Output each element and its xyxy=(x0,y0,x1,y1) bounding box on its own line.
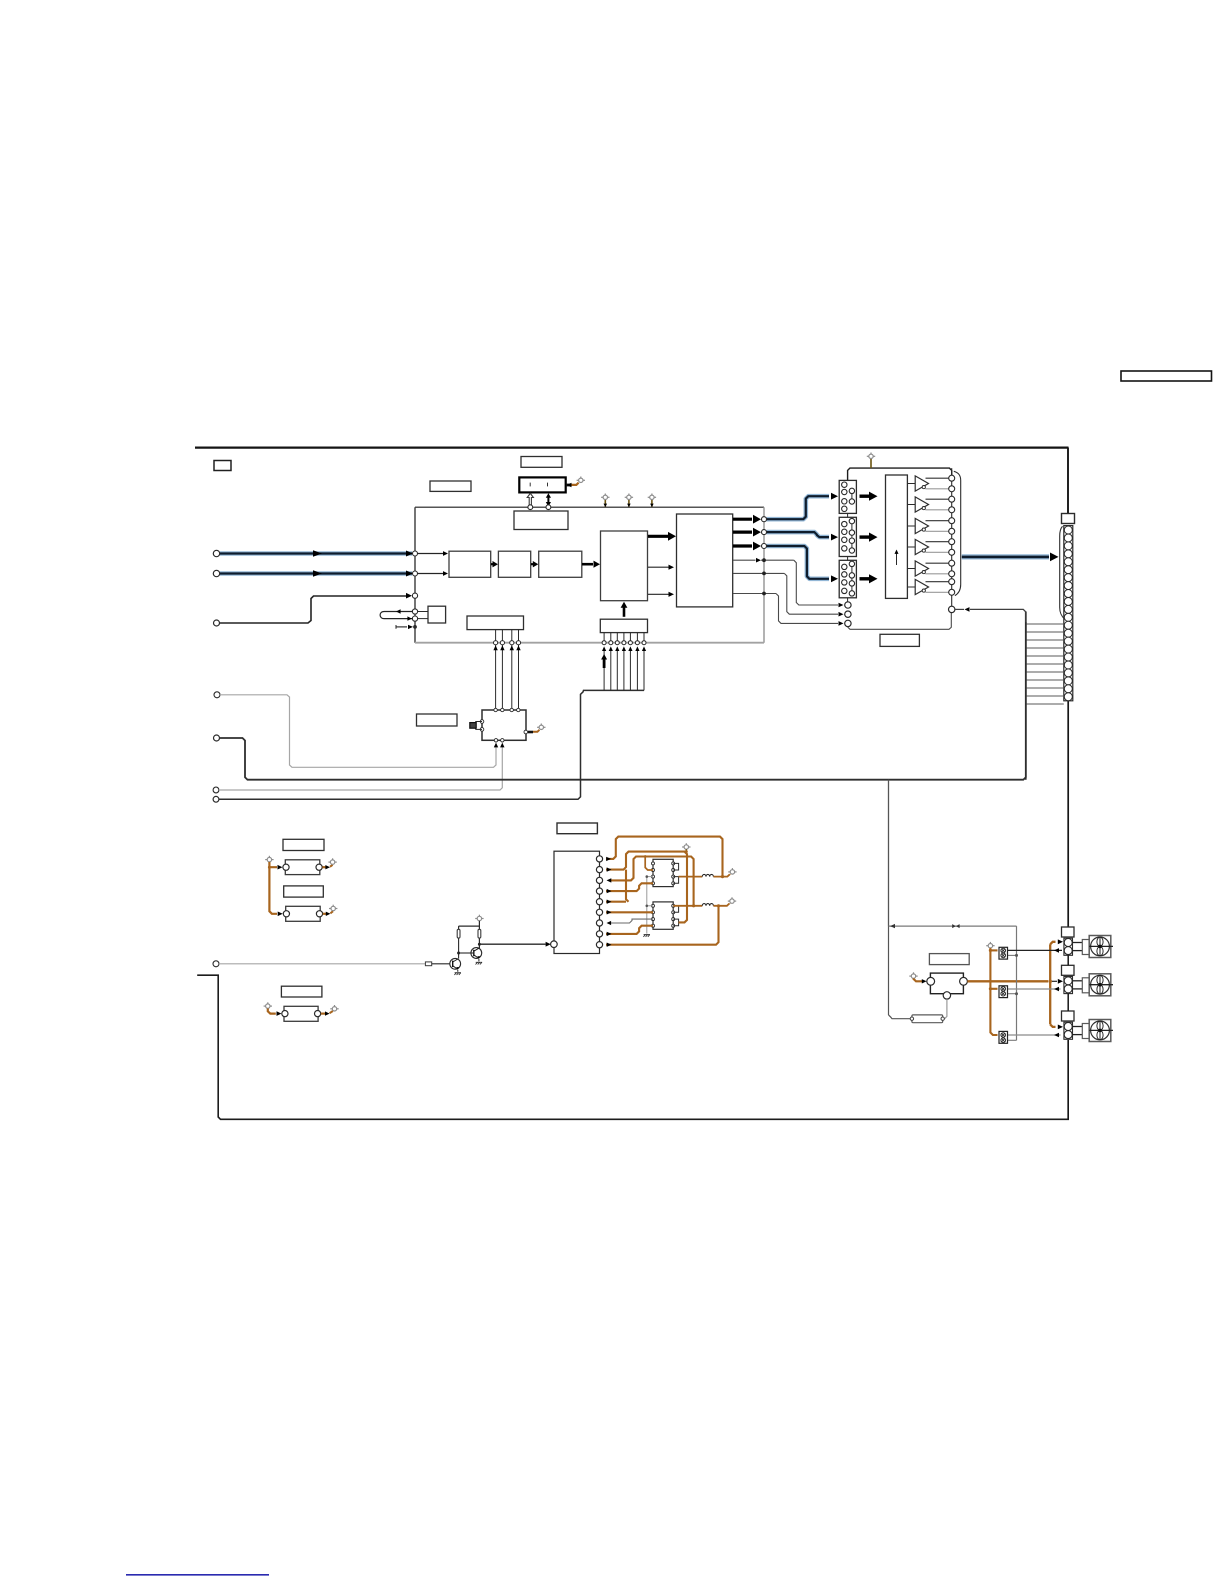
buffer T3 xyxy=(907,518,948,533)
orange switch rail xyxy=(989,948,998,1035)
power symbol VP13 xyxy=(986,942,994,948)
bus frame CN4 xyxy=(554,851,600,953)
node on edge A3 xyxy=(412,593,417,598)
bus pins CN4 xyxy=(596,856,602,948)
label box L3 xyxy=(514,511,568,530)
terminal J4 xyxy=(214,692,220,698)
connector P1 pins xyxy=(1064,526,1072,701)
wire U6 a xyxy=(418,611,429,613)
resistor R2 xyxy=(457,929,460,938)
bus branch 7 xyxy=(642,633,646,691)
ground G2 xyxy=(454,973,461,975)
blue wire CN2 xyxy=(767,532,839,540)
power symbol VP7 xyxy=(330,1005,338,1011)
resistor R4 xyxy=(910,1015,944,1023)
power symbol VP1 xyxy=(577,477,585,483)
filter FL3 xyxy=(282,1006,321,1021)
power tick VT3 xyxy=(648,494,656,508)
power tap VT4 xyxy=(867,453,875,469)
block link b xyxy=(847,557,849,561)
orange feed FL1 xyxy=(268,862,283,916)
terminal J7 xyxy=(213,796,219,802)
power symbol VP11 xyxy=(728,897,736,903)
branch to resistor xyxy=(889,926,911,1019)
header label box top right xyxy=(1121,371,1212,381)
junction branch down xyxy=(888,780,890,926)
orange feed FL3 xyxy=(268,1009,282,1016)
gray run O6 xyxy=(607,919,654,925)
bus branch 6 xyxy=(635,633,639,691)
connector P1 body xyxy=(1064,526,1073,701)
IC1 top pin 3 xyxy=(510,708,513,711)
IC1 left pins xyxy=(480,720,484,732)
orange out FL3 xyxy=(321,1011,333,1016)
blue bus wire 2 xyxy=(220,570,413,576)
IC1 top pin 1 xyxy=(494,708,497,711)
IC3 staple a xyxy=(673,906,678,913)
node tuner1 xyxy=(528,505,533,510)
fan wire F2 xyxy=(1008,987,1061,992)
node on edge A4 xyxy=(412,609,417,614)
page link underline bottom left xyxy=(126,1574,269,1576)
loopback hook xyxy=(380,609,412,621)
terminal J8 xyxy=(213,961,219,967)
wire U6 b xyxy=(418,618,429,620)
thick arrow CN2 out xyxy=(860,533,878,542)
blue bus wire 1 xyxy=(220,550,413,556)
bias rail xyxy=(459,921,480,949)
IC1 top pin 4 xyxy=(517,708,520,711)
wire J5 long xyxy=(220,612,1026,780)
wire J7 bus riser xyxy=(219,690,644,799)
ic IC2 xyxy=(653,859,673,886)
buffer T4 xyxy=(907,539,948,554)
fan wire F1 xyxy=(999,948,1062,953)
thick arrow CN3 out xyxy=(860,574,878,583)
orange out FL2 xyxy=(323,911,333,916)
clock dist box xyxy=(467,616,524,630)
fan chain link c xyxy=(1067,1040,1069,1119)
ground G3 xyxy=(643,935,650,937)
orange run O8 xyxy=(606,904,720,947)
relay RL1 xyxy=(927,973,968,999)
buffer T2 xyxy=(907,497,948,512)
thick arrow U4-U5 xyxy=(648,532,676,541)
orange run O2b xyxy=(606,870,629,904)
top rule xyxy=(195,446,1069,448)
column bracket xyxy=(954,471,961,595)
fan M1 with connector xyxy=(1062,927,1114,958)
pin block CN3 xyxy=(839,560,856,598)
node on edge A6 xyxy=(414,626,417,629)
clock pin wire 3 xyxy=(510,630,514,710)
ground G1 xyxy=(476,962,483,964)
clock pin wire 1 xyxy=(493,630,497,710)
bus branch 4 xyxy=(622,633,626,691)
inductor FB4 xyxy=(673,903,729,905)
block U4 xyxy=(601,531,648,601)
terminal J1 xyxy=(213,550,219,556)
IC1 top pin 2 xyxy=(501,708,504,711)
wire U5 w1 xyxy=(733,558,844,607)
power symbol VP2 xyxy=(537,724,545,730)
wire C13 out xyxy=(955,607,1026,622)
fan chain link a xyxy=(1067,955,1069,965)
IC3 pins xyxy=(652,904,675,927)
thick arrow U5 B1 xyxy=(733,515,761,524)
buffer T6 xyxy=(907,579,948,594)
orange out FL1 xyxy=(322,865,332,870)
block U1 xyxy=(449,551,491,577)
node B2 xyxy=(762,530,767,535)
bus branch 1 xyxy=(602,633,606,691)
clock feed box xyxy=(600,619,647,632)
buffer T5 xyxy=(907,561,948,576)
arrow up into U4 xyxy=(621,602,628,617)
node tuner2 xyxy=(546,505,551,510)
power symbol VP8 xyxy=(475,915,483,921)
blue output bus xyxy=(962,553,1059,562)
node CN4 in xyxy=(551,941,558,948)
series resistor R1 xyxy=(425,962,431,966)
blue wire CN1 xyxy=(767,493,839,519)
fan M2 with connector xyxy=(1062,965,1114,996)
connector bracket xyxy=(1060,526,1065,619)
node C13 xyxy=(949,606,955,612)
filter FL1 xyxy=(283,860,322,875)
fan chain link b xyxy=(1067,994,1069,1011)
inductor FB3 xyxy=(679,874,730,876)
node on edge A2 xyxy=(413,571,418,576)
arrow U1-U2 xyxy=(491,561,498,567)
fan ribbon bus xyxy=(1026,622,1064,780)
label box L4 xyxy=(417,714,458,726)
node B3 xyxy=(762,544,767,549)
wire R1 to Q1 xyxy=(432,963,450,965)
wire J4 to IC1 xyxy=(220,695,498,768)
label box L11 xyxy=(929,954,969,965)
switch block SW2 xyxy=(999,986,1008,998)
outer frame right edge mid xyxy=(1067,701,1069,927)
power symbol VP4 xyxy=(328,858,336,864)
transistor Q1 xyxy=(450,958,461,971)
label box L7 xyxy=(283,839,324,850)
wire tuner to power xyxy=(566,483,579,488)
sense rail xyxy=(1008,926,1018,1040)
crystal X1 xyxy=(470,722,482,730)
arrow U3-U4 xyxy=(582,561,600,568)
orange run O7 xyxy=(606,926,653,936)
wire R2 down xyxy=(457,938,460,959)
bus branch 5 xyxy=(628,633,632,691)
legend box top left xyxy=(214,461,231,471)
thick arrow CN1 out xyxy=(860,492,878,501)
orange run O4 xyxy=(606,883,653,893)
wire J8 to Q1 xyxy=(219,963,425,965)
stub arrow into A6 xyxy=(396,625,413,629)
collector node xyxy=(478,942,551,947)
terminal J6 xyxy=(213,787,219,793)
blue wire CN3 xyxy=(767,546,839,582)
fan wire F3 xyxy=(1008,1033,1061,1038)
node B1 xyxy=(762,517,767,522)
wire IC1 to power xyxy=(528,730,539,732)
block U2 xyxy=(498,551,530,577)
pin block CN2 xyxy=(839,517,856,556)
label box L9 xyxy=(281,986,322,997)
input arrow to U1 a xyxy=(418,551,449,556)
inner board outline xyxy=(415,507,764,643)
pin block CN1 xyxy=(839,480,856,513)
outer frame bottom edge xyxy=(197,975,1068,1119)
bus branch 3 xyxy=(615,633,619,691)
connector square top xyxy=(1062,514,1075,524)
wire J3 to node xyxy=(220,593,412,623)
wire C3 return xyxy=(848,613,951,630)
double arrow xyxy=(546,493,551,506)
input arrow to U1 b xyxy=(418,571,449,576)
output column line xyxy=(951,468,953,606)
IC1 bottom pins xyxy=(494,739,504,742)
orange run O2 xyxy=(606,850,688,922)
node C3 xyxy=(845,620,851,626)
power symbol VP12 xyxy=(909,972,917,978)
block U3 xyxy=(539,551,582,577)
thick arrow U5 B2 xyxy=(733,528,761,537)
power tick VT1 xyxy=(601,494,609,508)
power tick VT2 xyxy=(625,494,633,508)
power symbol VP9 xyxy=(682,843,690,851)
resistor R3 xyxy=(478,929,481,938)
power symbol VP3 xyxy=(265,856,273,862)
node C2 xyxy=(845,611,851,617)
terminal J2 xyxy=(213,570,219,576)
wire U5 w2 xyxy=(733,572,844,617)
hollow arrow up xyxy=(527,493,533,505)
IC2 staple a xyxy=(673,863,678,870)
tuner box with pins xyxy=(519,477,565,492)
switch block SW3 xyxy=(999,1031,1008,1043)
label box L1 xyxy=(430,481,471,491)
power symbol VP6 xyxy=(264,1002,272,1008)
wire U5 w3 xyxy=(733,592,844,626)
small box U6 xyxy=(428,606,446,623)
orange run O3b xyxy=(644,855,653,870)
label box L8 xyxy=(284,886,324,897)
arrow U4-U5 b xyxy=(648,565,674,570)
terminal J5 xyxy=(214,735,220,741)
label box L5 xyxy=(880,634,919,646)
sense line with valve xyxy=(889,924,1017,928)
bus branch 2 xyxy=(609,633,613,691)
driver box U7 xyxy=(886,475,908,598)
relay coil return xyxy=(945,999,947,1019)
outer frame right edge upper xyxy=(1067,448,1069,514)
wire top to column xyxy=(848,468,952,480)
power symbol VP10 xyxy=(728,868,736,874)
orange bus fans xyxy=(967,939,1063,1029)
clock pin wire 2 xyxy=(500,630,504,710)
terminal J3 xyxy=(214,620,220,626)
orange run O5 xyxy=(606,910,653,914)
IC1 right pin xyxy=(524,730,528,734)
arrow U4-U5 c xyxy=(648,592,674,597)
filter FL2 xyxy=(283,906,322,921)
orange run O1 xyxy=(606,837,724,879)
fan M3 with connector xyxy=(1062,1011,1114,1042)
clock pin wire 4 xyxy=(516,630,520,710)
node C1 xyxy=(845,602,851,608)
node on edge A1 xyxy=(413,551,418,556)
ic IC3 xyxy=(653,902,673,929)
label box L10 xyxy=(557,823,597,834)
orange feed RL1 xyxy=(914,978,927,983)
power symbol VP5 xyxy=(329,905,337,911)
thick arrow U5 B3 xyxy=(733,542,761,551)
block U5 xyxy=(677,514,733,607)
block link c xyxy=(847,598,849,602)
transistor Q2 xyxy=(459,948,482,962)
orange run O3 xyxy=(607,857,696,908)
switch block SW1 xyxy=(999,947,1008,959)
output column nodes xyxy=(949,475,955,595)
IC2 pins xyxy=(652,862,675,885)
label box L2 xyxy=(521,457,562,468)
buffer T1 xyxy=(907,476,948,491)
wire J6 to IC1 xyxy=(219,743,505,790)
ic IC1 xyxy=(482,710,526,740)
bold arrow on branch1 xyxy=(601,654,607,668)
IC3 staple b xyxy=(673,919,678,926)
IC2 staple b xyxy=(673,877,678,884)
bias line gray xyxy=(646,875,654,933)
block link a xyxy=(847,513,849,517)
node on edge A5 xyxy=(412,616,417,621)
arrow U2-U3 xyxy=(531,561,538,567)
